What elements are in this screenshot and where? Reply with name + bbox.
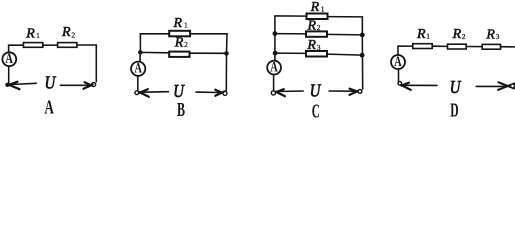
- wire B left vertical to ammeter: [139, 52, 141, 61]
- wire B right vertical: [225, 53, 227, 91]
- resistor R3 (D): [482, 44, 500, 49]
- svg-text:3: 3: [496, 32, 500, 41]
- svg-text:R: R: [306, 38, 316, 53]
- U left arrow (D): [401, 83, 437, 90]
- right terminal (A) open circle: [92, 83, 96, 87]
- resistor R2 (A): [58, 43, 77, 48]
- svg-text:A: A: [5, 50, 13, 66]
- wire C top branch R1: [275, 16, 307, 34]
- wire B top branch: [140, 34, 169, 53]
- U left arrow (C): [276, 89, 303, 96]
- svg-text:R: R: [25, 26, 35, 41]
- U left arrow (B): [139, 89, 168, 97]
- wire C branch R3 right: [328, 54, 363, 55]
- wire D below ammeter: [398, 69, 400, 82]
- svg-text:1: 1: [36, 31, 40, 40]
- resistor R1 (C): [307, 14, 328, 20]
- svg-text:U: U: [450, 76, 461, 97]
- wire B second branch left: [140, 51, 169, 53]
- svg-text:U: U: [310, 80, 321, 101]
- wire D after R3 to edge: [501, 46, 515, 48]
- svg-text:R: R: [485, 28, 495, 43]
- svg-text:1: 1: [321, 5, 325, 14]
- wire C branch R2 right: [328, 33, 363, 36]
- resistor R1 (A): [23, 43, 42, 48]
- U left arrow (A): [9, 82, 36, 90]
- U right arrow (D): [476, 82, 514, 90]
- U right arrow (B): [196, 90, 225, 96]
- wire A between R1 and R2: [43, 44, 58, 46]
- wire D between R1 R2: [432, 45, 447, 47]
- svg-text:3: 3: [317, 43, 321, 52]
- wire A top-right and right vertical: [77, 45, 96, 82]
- wire D between R2 R3: [466, 46, 482, 48]
- svg-text:D: D: [450, 98, 458, 121]
- wire B below ammeter: [137, 76, 139, 91]
- resistor R1 (D): [413, 44, 432, 49]
- ammeter A (circuit A): [2, 52, 16, 66]
- svg-text:2: 2: [71, 31, 75, 40]
- ammeter (circuit D): [391, 55, 405, 69]
- svg-text:1: 1: [184, 21, 188, 30]
- node dots C right: [360, 33, 365, 38]
- svg-text:A: A: [134, 60, 142, 76]
- right terminal (D) open circle, near edge: [511, 84, 515, 88]
- right terminal (B) open circle: [223, 91, 227, 95]
- svg-text:R: R: [452, 27, 462, 42]
- svg-text:R: R: [307, 19, 317, 34]
- svg-text:2: 2: [317, 23, 321, 32]
- U right arrow (A): [60, 82, 92, 89]
- left terminal (B) open circle: [135, 91, 139, 95]
- right terminal (C) open circle: [358, 90, 362, 94]
- svg-text:C: C: [312, 100, 320, 122]
- svg-text:R: R: [310, 0, 320, 15]
- node dot B left: [138, 50, 143, 55]
- resistor R1 (B): [169, 31, 190, 37]
- node dot B right: [224, 51, 229, 56]
- U right arrow (C): [329, 89, 359, 95]
- svg-text:B: B: [177, 98, 185, 121]
- resistor R2 (C): [306, 31, 327, 36]
- wire C branch R3 left: [275, 52, 307, 54]
- wire D top-left: [398, 46, 413, 55]
- svg-text:2: 2: [184, 40, 188, 49]
- wire A top-left vertical: [9, 45, 24, 52]
- node dots C left: [273, 31, 278, 36]
- left terminal (D) open circle: [398, 82, 402, 86]
- node: bottom-left terminal dot (A): [5, 83, 9, 87]
- left terminal (C) open circle: [271, 91, 275, 95]
- svg-text:R: R: [173, 16, 183, 31]
- wire C branch R2 left: [275, 33, 307, 35]
- svg-text:1: 1: [426, 31, 430, 40]
- wire B second branch right: [190, 52, 227, 54]
- resistor R2 (B): [169, 52, 189, 57]
- wire A below ammeter: [8, 66, 10, 85]
- svg-text:R: R: [174, 36, 184, 51]
- svg-text:A: A: [394, 53, 402, 69]
- svg-text:R: R: [416, 27, 426, 42]
- wire C right vertical: [361, 35, 363, 90]
- wire C below ammeter: [273, 74, 275, 91]
- resistor R3 (C): [306, 51, 327, 57]
- resistor R2 (D): [448, 44, 467, 49]
- svg-text:2: 2: [462, 32, 466, 41]
- ammeter (circuit C): [267, 61, 281, 75]
- wire C left vertical: [274, 34, 276, 61]
- svg-text:A: A: [270, 59, 278, 75]
- svg-text:A: A: [45, 96, 54, 118]
- svg-text:U: U: [45, 72, 56, 93]
- ammeter (circuit B): [131, 62, 145, 76]
- svg-text:R: R: [61, 25, 71, 40]
